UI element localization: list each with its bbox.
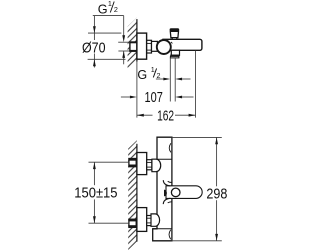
thermostat knob circle (side) [157, 40, 171, 54]
svg-text:162: 162 [157, 107, 174, 124]
diverter knob on top: cap [170, 28, 180, 31]
162 right extension line (spout outlet) [195, 51, 197, 118]
spout lower fillet curl [163, 198, 170, 204]
lower cartridge D-cap [151, 214, 160, 226]
spout lower fillet tick [168, 202, 172, 203]
svg-text:Ø70: Ø70 [82, 40, 106, 57]
Ø70 extension lines [88, 32, 121, 34]
dimension 162 [137, 114, 196, 116]
spout upper fillet tick [168, 181, 172, 182]
lower union: flange [137, 208, 147, 232]
dimension G1/2 (top label) shelf [93, 15, 124, 17]
svg-text:107: 107 [145, 89, 163, 106]
mixer body (side) [163, 39, 202, 50]
dimension 298 extension lines [172, 136, 222, 138]
union hex nut (side) [147, 40, 152, 53]
dimension Ø70 vertical line + arrows [93, 16, 95, 40]
G1/2 pipe square in wall [130, 42, 137, 51]
svg-text:2: 2 [114, 5, 118, 14]
hose nipple below body [171, 50, 179, 55]
pipe bottom edge extension [118, 50, 130, 52]
wall hatch (bottom view) [128, 140, 137, 250]
connector sleeve [152, 41, 158, 51]
spout upper fillet curl [163, 180, 170, 186]
upper cartridge D-cap [152, 159, 161, 172]
svg-text:150±15: 150±15 [74, 185, 117, 202]
lower union: hex nut [147, 216, 152, 226]
wall face line (bottom view) [136, 144, 138, 242]
escutcheon Ø70 (side) [137, 33, 147, 59]
G1/2 second arrows [156, 78, 163, 80]
G1/2 pipe dim line upper segment + down arrow [123, 16, 125, 36]
G1/2 pipe dim line lower segment + up arrow [123, 51, 125, 64]
upper housing top inner line [152, 158, 172, 160]
svg-text:1: 1 [108, 0, 112, 8]
svg-text:1: 1 [151, 65, 155, 74]
spout stadium (bottom view) [166, 186, 202, 199]
dimension 298 line + arrows [216, 137, 218, 240]
svg-text:298: 298 [206, 186, 227, 203]
svg-text:G: G [98, 2, 108, 16]
body outline (bottom view) [153, 137, 172, 241]
diverter knob neck [172, 38, 176, 40]
bottom cap inner arc [169, 230, 171, 239]
Ø70 text [81, 41, 107, 54]
upper union: wall nut [129, 159, 136, 167]
upper union: hex nut [147, 160, 152, 170]
dimension 107 [121, 96, 130, 98]
pipe top edge extension [118, 41, 130, 43]
wall hatch (top view) [128, 17, 137, 70]
lower union: wall nut [129, 219, 136, 227]
diverter knob trapezoid body [170, 31, 178, 37]
svg-text:G: G [137, 68, 147, 82]
upper union: flange [137, 153, 147, 175]
dimension 150±15 line + arrows [93, 162, 95, 223]
dark button half-oval [164, 190, 167, 197]
wall face line + 162 left extension line [136, 19, 138, 61]
aerator ring [171, 188, 180, 197]
bottom cap top inner line [153, 228, 172, 230]
top cap inner arc [169, 143, 171, 152]
body/circle joint tick [171, 42, 173, 43]
hose nipple extension lines [169, 57, 171, 101]
dimension 150±15 extension lines [89, 161, 129, 163]
